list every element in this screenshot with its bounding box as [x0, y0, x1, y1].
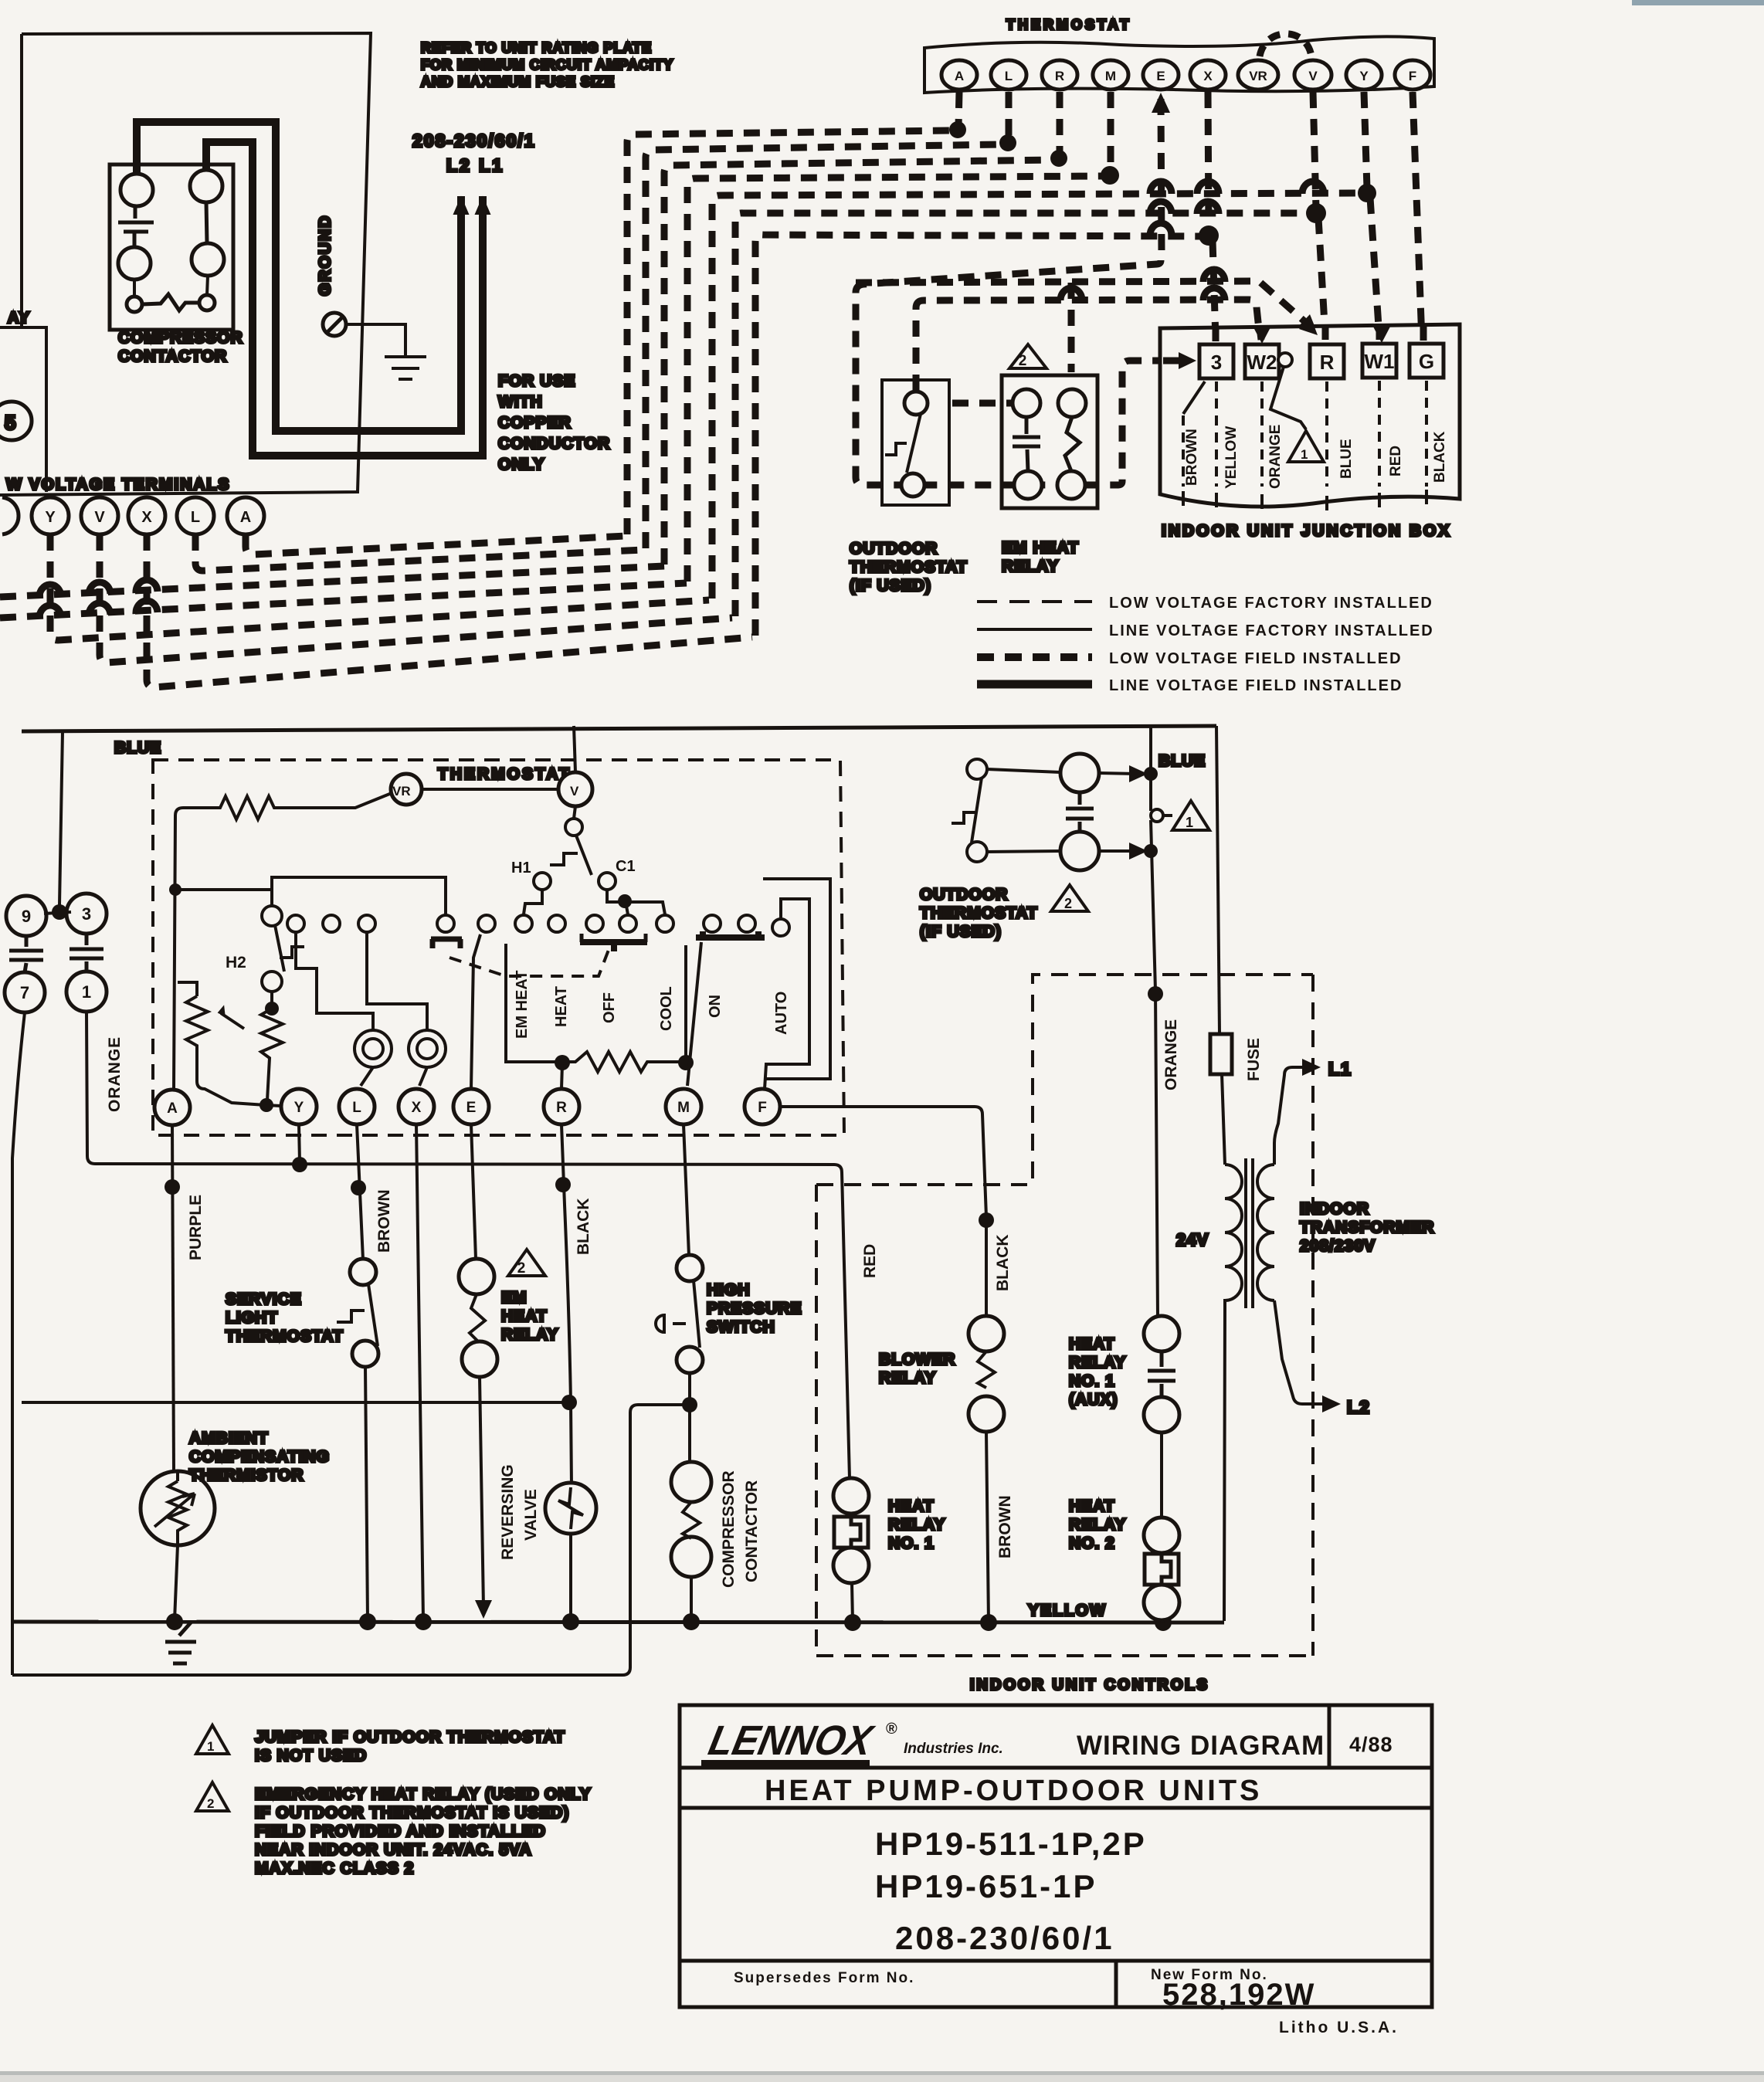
svg-text:EM HEAT: EM HEAT — [514, 970, 531, 1039]
svg-text:Y: Y — [294, 1100, 304, 1116]
svg-text:AUTO: AUTO — [773, 992, 790, 1035]
svg-text:AY: AY — [8, 310, 31, 327]
svg-text:W VOLTAGE TERMINALS: W VOLTAGE TERMINALS — [6, 476, 230, 493]
svg-text:BLACK: BLACK — [575, 1199, 592, 1256]
svg-text:A: A — [955, 69, 964, 83]
svg-text:VR: VR — [392, 784, 411, 799]
svg-text:INDOOR: INDOOR — [1300, 1200, 1369, 1218]
svg-text:LINE VOLTAGE FACTORY INSTALLED: LINE VOLTAGE FACTORY INSTALLED — [1109, 622, 1434, 639]
svg-text:LOW VOLTAGE FACTORY INSTALLED: LOW VOLTAGE FACTORY INSTALLED — [1109, 595, 1433, 612]
svg-text:BLACK: BLACK — [1432, 431, 1448, 483]
svg-text:V: V — [570, 784, 579, 799]
svg-text:HEAT: HEAT — [501, 1307, 548, 1325]
svg-text:CONTACTOR: CONTACTOR — [743, 1480, 761, 1582]
svg-text:R: R — [1055, 69, 1064, 83]
svg-text:BLACK: BLACK — [994, 1235, 1012, 1292]
svg-text:L2 L1: L2 L1 — [446, 155, 504, 175]
svg-text:A: A — [167, 1100, 178, 1117]
svg-text:BROWN: BROWN — [375, 1189, 393, 1253]
svg-text:FOR MINIMUM CIRCUIT AMPACITY: FOR MINIMUM CIRCUIT AMPACITY — [421, 57, 673, 73]
svg-text:X: X — [1203, 69, 1213, 83]
svg-text:528,192W: 528,192W — [1162, 1978, 1315, 2012]
svg-text:PRESSURE: PRESSURE — [707, 1300, 802, 1317]
svg-text:CONTACTOR: CONTACTOR — [118, 348, 227, 365]
svg-text:TRANSFORMER: TRANSFORMER — [1300, 1219, 1434, 1236]
svg-text:MAX.NEC CLASS 2: MAX.NEC CLASS 2 — [255, 1860, 414, 1877]
svg-text:YELLOW: YELLOW — [1223, 426, 1240, 489]
svg-text:INDOOR UNIT JUNCTION BOX: INDOOR UNIT JUNCTION BOX — [1162, 522, 1451, 540]
svg-text:THERMISTOR: THERMISTOR — [189, 1467, 304, 1484]
svg-text:EM: EM — [501, 1289, 528, 1307]
svg-text:L: L — [1005, 69, 1013, 83]
svg-text:BLUE: BLUE — [1158, 752, 1206, 770]
svg-text:208/230V: 208/230V — [1300, 1237, 1376, 1255]
svg-text:Litho U.S.A.: Litho U.S.A. — [1279, 2019, 1399, 2036]
svg-text:A: A — [240, 509, 251, 526]
svg-text:V: V — [1308, 69, 1318, 83]
svg-text:COOL: COOL — [658, 986, 675, 1031]
svg-text:1: 1 — [1186, 815, 1193, 830]
svg-text:LINE VOLTAGE FIELD INSTALLED: LINE VOLTAGE FIELD INSTALLED — [1109, 677, 1403, 694]
svg-text:C1: C1 — [616, 858, 636, 875]
svg-text:V: V — [94, 509, 105, 526]
svg-text:EMERGENCY HEAT RELAY (USED ONL: EMERGENCY HEAT RELAY (USED ONLY — [255, 1785, 592, 1803]
svg-text:BLOWER: BLOWER — [879, 1351, 955, 1368]
svg-text:24V: 24V — [1176, 1230, 1209, 1250]
svg-text:HEAT PUMP-OUTDOOR UNITS: HEAT PUMP-OUTDOOR UNITS — [765, 1775, 1262, 1807]
svg-text:RELAY: RELAY — [879, 1369, 936, 1387]
svg-text:3: 3 — [82, 904, 91, 924]
svg-text:BROWN: BROWN — [996, 1495, 1014, 1558]
svg-text:L2: L2 — [1347, 1397, 1371, 1417]
svg-text:4/88: 4/88 — [1349, 1733, 1393, 1756]
svg-text:COMPENSATING: COMPENSATING — [189, 1448, 330, 1466]
svg-text:208-230/60/1: 208-230/60/1 — [412, 131, 536, 151]
svg-text:OUTDOOR: OUTDOOR — [850, 540, 938, 558]
svg-text:NO. 1: NO. 1 — [888, 1534, 935, 1552]
svg-text:THERMOSTAT: THERMOSTAT — [920, 904, 1038, 922]
svg-text:ONLY: ONLY — [498, 456, 544, 473]
svg-text:OFF: OFF — [601, 992, 618, 1023]
svg-text:BLUE: BLUE — [114, 739, 161, 757]
svg-text:RELAY: RELAY — [501, 1326, 558, 1344]
svg-text:RELAY: RELAY — [1069, 1516, 1126, 1534]
svg-text:F: F — [758, 1100, 767, 1116]
svg-text:BROWN: BROWN — [1184, 429, 1200, 486]
svg-text:GROUND: GROUND — [317, 215, 334, 296]
svg-text:ORANGE: ORANGE — [1267, 425, 1284, 489]
svg-text:PURPLE: PURPLE — [187, 1195, 205, 1260]
svg-text:M: M — [677, 1100, 690, 1116]
svg-text:208-230/60/1: 208-230/60/1 — [895, 1920, 1114, 1956]
svg-text:Supersedes Form No.: Supersedes Form No. — [734, 1970, 914, 1986]
svg-text:LENNOX: LENNOX — [704, 1717, 878, 1764]
svg-text:THERMOSTAT: THERMOSTAT — [850, 558, 968, 576]
svg-text:(IF USED): (IF USED) — [920, 923, 1002, 941]
svg-text:W2: W2 — [1247, 351, 1277, 374]
svg-text:HIGH: HIGH — [707, 1281, 751, 1299]
svg-text:HEAT: HEAT — [888, 1497, 935, 1515]
svg-text:SWITCH: SWITCH — [707, 1318, 775, 1336]
svg-text:R: R — [556, 1100, 567, 1116]
svg-text:EM HEAT: EM HEAT — [1002, 539, 1079, 557]
svg-text:5: 5 — [5, 411, 15, 434]
svg-text:H2: H2 — [226, 954, 246, 971]
svg-text:2: 2 — [1064, 896, 1072, 911]
svg-text:WIRING DIAGRAM: WIRING DIAGRAM — [1077, 1731, 1325, 1761]
svg-text:HP19-511-1P,2P: HP19-511-1P,2P — [875, 1826, 1147, 1862]
svg-text:2: 2 — [1019, 353, 1027, 369]
svg-text:ON: ON — [707, 995, 724, 1018]
svg-text:THERMOSTAT: THERMOSTAT — [226, 1328, 344, 1345]
svg-text:HEAT: HEAT — [1069, 1497, 1115, 1515]
svg-text:JUMPER IF OUTDOOR THERMOSTAT: JUMPER IF OUTDOOR THERMOSTAT — [255, 1728, 565, 1746]
svg-text:X: X — [412, 1100, 422, 1116]
svg-text:INDOOR UNIT CONTROLS: INDOOR UNIT CONTROLS — [970, 1677, 1209, 1694]
svg-text:RELAY: RELAY — [888, 1516, 945, 1534]
svg-text:IF OUTDOOR THERMOSTAT IS USED): IF OUTDOOR THERMOSTAT IS USED) — [255, 1804, 569, 1822]
svg-text:RED: RED — [1388, 446, 1404, 476]
svg-text:2: 2 — [207, 1796, 214, 1811]
svg-text:L: L — [191, 509, 200, 526]
svg-text:2: 2 — [517, 1260, 526, 1277]
svg-text:L: L — [352, 1100, 361, 1116]
svg-text:LIGHT: LIGHT — [226, 1309, 278, 1327]
svg-text:RELAY: RELAY — [1069, 1354, 1126, 1372]
svg-text:9: 9 — [22, 907, 31, 926]
svg-text:Industries Inc.: Industries Inc. — [904, 1741, 1003, 1757]
svg-text:FUSE: FUSE — [1245, 1038, 1263, 1081]
svg-text:NO. 2: NO. 2 — [1069, 1534, 1115, 1552]
svg-text:RELAY: RELAY — [1002, 558, 1059, 575]
svg-text:W1: W1 — [1365, 350, 1395, 373]
svg-text:AMBIENT: AMBIENT — [189, 1429, 269, 1447]
svg-text:FOR USE: FOR USE — [498, 372, 575, 390]
svg-text:7: 7 — [20, 983, 29, 1002]
svg-text:Y: Y — [45, 509, 56, 526]
svg-text:COMPRESSOR: COMPRESSOR — [118, 329, 243, 347]
svg-text:R: R — [1320, 351, 1335, 374]
svg-text:(AUX): (AUX) — [1069, 1391, 1118, 1409]
svg-text:REVERSING: REVERSING — [499, 1464, 517, 1560]
svg-text:VR: VR — [1249, 69, 1267, 83]
svg-text:L1: L1 — [1328, 1059, 1352, 1079]
svg-text:ORANGE: ORANGE — [106, 1036, 124, 1112]
svg-text:ORANGE: ORANGE — [1162, 1019, 1180, 1090]
svg-text:CONDUCTOR: CONDUCTOR — [498, 435, 610, 453]
svg-text:G: G — [1419, 350, 1434, 373]
svg-text:1: 1 — [82, 982, 91, 1002]
svg-text:LOW VOLTAGE FIELD INSTALLED: LOW VOLTAGE FIELD INSTALLED — [1109, 650, 1403, 667]
svg-text:HEAT: HEAT — [553, 986, 570, 1027]
svg-text:NEAR INDOOR UNIT. 24VAC. 5VA: NEAR INDOOR UNIT. 24VAC. 5VA — [255, 1841, 532, 1859]
svg-text:3: 3 — [1211, 351, 1222, 374]
svg-text:HEAT: HEAT — [1069, 1335, 1115, 1353]
svg-text:E: E — [466, 1100, 477, 1116]
svg-text:M: M — [1105, 69, 1116, 83]
svg-text:COMPRESSOR: COMPRESSOR — [720, 1470, 738, 1588]
svg-text:WITH: WITH — [498, 393, 543, 411]
svg-text:(IF USED): (IF USED) — [850, 577, 931, 595]
svg-text:1: 1 — [1301, 447, 1308, 462]
svg-text:THERMOSTAT: THERMOSTAT — [1006, 17, 1131, 32]
svg-text:AND MAXIMUM FUSE SIZE: AND MAXIMUM FUSE SIZE — [421, 74, 615, 90]
svg-text:H1: H1 — [511, 860, 531, 877]
svg-text:F: F — [1409, 69, 1416, 83]
svg-text:Y: Y — [1359, 69, 1369, 83]
svg-text:NO. 1: NO. 1 — [1069, 1372, 1115, 1390]
svg-text:RED: RED — [861, 1244, 879, 1278]
svg-text:HP19-651-1P: HP19-651-1P — [875, 1868, 1097, 1904]
svg-text:BLUE: BLUE — [1338, 439, 1355, 479]
svg-text:SERVICE: SERVICE — [226, 1290, 302, 1308]
svg-text:VALVE: VALVE — [522, 1489, 540, 1541]
svg-text:THERMOSTAT: THERMOSTAT — [438, 765, 572, 783]
svg-text:E: E — [1156, 69, 1165, 83]
svg-text:X: X — [141, 509, 152, 526]
svg-text:IS NOT USED: IS NOT USED — [255, 1747, 367, 1765]
svg-text:OUTDOOR: OUTDOOR — [920, 886, 1008, 904]
svg-text:REFER TO UNIT RATING PLATE: REFER TO UNIT RATING PLATE — [421, 40, 652, 56]
svg-text:COPPER: COPPER — [498, 414, 572, 432]
svg-text:YELLOW: YELLOW — [1028, 1602, 1107, 1619]
svg-text:1: 1 — [207, 1739, 214, 1754]
svg-text:FIELD PROVIDED AND INSTALLED: FIELD PROVIDED AND INSTALLED — [255, 1823, 546, 1840]
svg-text:®: ® — [886, 1721, 897, 1738]
